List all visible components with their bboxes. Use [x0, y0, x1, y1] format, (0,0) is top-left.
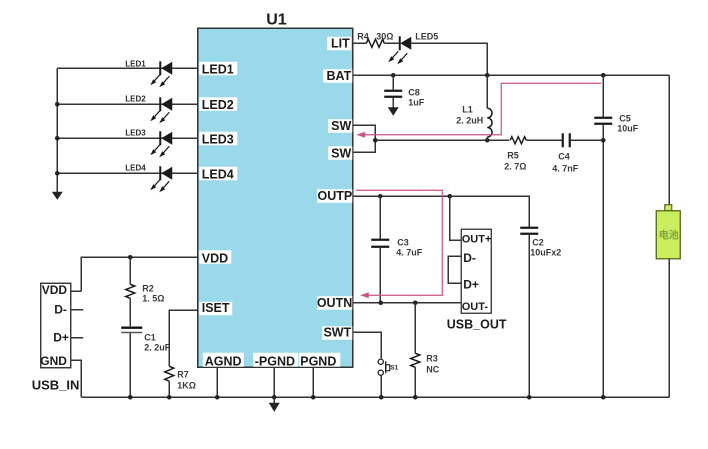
capacitor C4 [563, 133, 604, 147]
node junction bus-LED4 [55, 171, 60, 176]
wire LED5 to BAT line [411, 43, 487, 75]
node junction C5-C4 [601, 138, 606, 143]
resistor R5 [510, 137, 562, 144]
svg-text:R2: R2 [142, 283, 154, 293]
ground bus wire [81, 396, 669, 398]
wire AGND down [216, 367, 218, 397]
svg-text:USB_IN: USB_IN [32, 377, 80, 392]
node junction OUTP-USBOUT [447, 194, 452, 199]
svg-text:SW: SW [331, 119, 351, 133]
inductor L1 [487, 75, 492, 140]
svg-text:1uF: 1uF [408, 97, 425, 107]
wire BAT to battery [668, 75, 670, 205]
ground arrow below C8 [388, 107, 399, 116]
pin label SW1 [328, 119, 352, 133]
svg-text:D+: D+ [53, 330, 69, 344]
svg-text:2. 7Ω: 2. 7Ω [504, 161, 526, 171]
wire LED4 to bus [57, 172, 197, 174]
pin label PGND second [299, 353, 340, 369]
node junction OUTN-C3 [378, 300, 383, 305]
switch S1 [378, 359, 390, 397]
capacitor C2 [520, 228, 538, 398]
C4 value label [552, 151, 579, 173]
LED2 diode symbol [150, 97, 172, 123]
resistor R7 [165, 366, 174, 397]
node junction bus-C1 [128, 395, 133, 400]
svg-text:2. 2uH: 2. 2uH [456, 115, 483, 125]
svg-text:1. 5Ω: 1. 5Ω [142, 293, 164, 303]
C2 value label [530, 237, 561, 257]
svg-text:LED3: LED3 [125, 128, 146, 137]
wire PGND1 down [273, 367, 275, 397]
battery cell [656, 205, 680, 259]
svg-text:-PGND: -PGND [255, 354, 295, 368]
resistor R3 [411, 303, 420, 398]
wire SW loop [353, 125, 375, 152]
wire LED cathode bus vertical [56, 68, 58, 192]
svg-text:ISET: ISET [202, 301, 230, 315]
svg-text:S1: S1 [390, 364, 398, 371]
L1 value label [456, 104, 483, 125]
node junction bus-C2 [527, 395, 532, 400]
node junction bus-C5 [601, 395, 606, 400]
wire USB_OUT D- D+ short [448, 256, 461, 283]
pin label LED3 [199, 132, 237, 147]
pin label LIT [327, 36, 351, 50]
node junction L1 bottom [485, 138, 490, 143]
capacitor C5 [594, 75, 612, 397]
svg-text:SW: SW [331, 146, 351, 160]
C5 value label [617, 113, 639, 133]
svg-text:C4: C4 [558, 151, 570, 161]
wire BAT rail [353, 74, 669, 76]
node junction VDD-R2 [128, 255, 133, 260]
svg-text:LED4: LED4 [125, 163, 146, 172]
svg-text:LED3: LED3 [202, 132, 234, 146]
svg-text:L1: L1 [462, 104, 473, 114]
node junction bus-S1 [379, 395, 384, 400]
node junction bus-PGND2 [311, 395, 316, 400]
svg-text:LED4: LED4 [202, 167, 234, 181]
wire battery to ground bus [668, 259, 670, 398]
pin label VDD [199, 250, 231, 265]
node junction bus-AGND [215, 395, 220, 400]
svg-text:BAT: BAT [326, 69, 351, 83]
wire USB_IN VDD stub [71, 290, 81, 292]
ground arrow below PGND [269, 397, 280, 412]
R3 value label [426, 353, 439, 374]
svg-text:4. 7uF: 4. 7uF [396, 247, 423, 257]
wire ISET to R7 [169, 310, 197, 366]
capacitor C3 [371, 196, 389, 303]
svg-text:D+: D+ [463, 277, 479, 291]
svg-text:C1: C1 [144, 332, 156, 342]
pin label SWT [322, 325, 352, 340]
svg-text:10uF: 10uF [617, 123, 639, 133]
svg-text:VDD: VDD [202, 251, 228, 265]
svg-text:10uFx2: 10uFx2 [530, 247, 561, 257]
wire VDD to USB_IN [81, 257, 197, 291]
svg-text:LED1: LED1 [125, 59, 146, 68]
wire OUTP rail [353, 196, 529, 227]
pin label LED4 [199, 167, 237, 182]
connector USB_OUT box [461, 229, 491, 313]
svg-text:OUT-: OUT- [462, 301, 489, 313]
svg-text:OUTP: OUTP [318, 189, 353, 203]
C3 value label [396, 237, 423, 257]
C1 value label [144, 332, 171, 352]
wire LIT pin [353, 42, 366, 44]
wire SWT to S1 [353, 332, 381, 358]
resistor R4 [366, 39, 399, 47]
connector USB_IN box [41, 283, 71, 368]
svg-text:4. 7nF: 4. 7nF [552, 163, 579, 173]
svg-text:C8: C8 [408, 87, 420, 97]
wire LED1 to bus [57, 67, 197, 69]
svg-text:AGND: AGND [205, 354, 242, 368]
node junction BAT-C8 [391, 73, 396, 78]
pin label OUTP [317, 189, 352, 203]
svg-text:OUT+: OUT+ [462, 233, 492, 245]
pink feedback wire SW [356, 83, 601, 138]
LED5 diode symbol [388, 36, 411, 64]
svg-text:LIT: LIT [331, 36, 350, 50]
svg-text:LED5: LED5 [415, 31, 438, 41]
node junction bus-R7 [167, 395, 172, 400]
R5 value label [504, 150, 526, 171]
svg-text:LED1: LED1 [202, 62, 234, 76]
svg-text:PGND: PGND [300, 354, 336, 368]
svg-text:USB_OUT: USB_OUT [447, 317, 507, 331]
LED3 diode symbol [150, 131, 172, 157]
wire LED2 to bus [57, 103, 197, 105]
svg-text:U1: U1 [266, 11, 287, 28]
svg-text:30Ω: 30Ω [376, 31, 393, 41]
svg-text:R5: R5 [507, 150, 519, 160]
capacitor C1 [121, 328, 142, 398]
svg-text:NC: NC [426, 364, 439, 374]
wire LED3 to bus [57, 137, 197, 139]
node junction BAT-C5 [601, 73, 606, 78]
svg-text:GND: GND [40, 354, 67, 368]
C8 value label [408, 87, 425, 107]
node junction OUTP-C3 [378, 194, 383, 199]
svg-text:电池: 电池 [659, 228, 679, 241]
wire PGND2 down [312, 367, 314, 397]
wire OUT+ branch [450, 196, 462, 240]
pin label PGND first [253, 353, 298, 369]
LED4 diode symbol [150, 166, 172, 192]
svg-text:LED2: LED2 [202, 98, 234, 112]
svg-text:C5: C5 [619, 113, 631, 123]
wire SW to L1 and R5 [375, 139, 509, 141]
wire USB_IN D+ stub [71, 337, 83, 339]
svg-text:R3: R3 [426, 353, 438, 363]
svg-text:C2: C2 [532, 237, 544, 247]
LED1 diode symbol [150, 61, 172, 87]
R7 value label [177, 369, 196, 390]
pin label OUTN [317, 296, 352, 310]
node junction bus-LED3 [55, 136, 60, 141]
capacitor C8 [384, 75, 402, 108]
svg-text:D-: D- [463, 251, 476, 265]
node junction SW loop [373, 138, 378, 143]
pin label AGND [203, 353, 244, 369]
pink feedback wire OUT [356, 190, 442, 298]
svg-text:VDD: VDD [42, 283, 68, 297]
ground arrow below LED bus [52, 192, 63, 200]
pin label SW2 [328, 146, 352, 160]
pin label BAT [323, 69, 352, 83]
pin label LED2 [199, 97, 237, 112]
node junction OUTN-R3 [413, 300, 418, 305]
resistor R2 [126, 257, 135, 326]
svg-text:C3: C3 [397, 237, 409, 247]
svg-text:D-: D- [54, 302, 67, 316]
svg-text:OUTN: OUTN [317, 296, 352, 310]
wire USB_IN D- stub [71, 309, 83, 311]
pin label LED1 [199, 62, 237, 77]
pin label ISET [199, 301, 232, 316]
node junction bus-LED2 [55, 102, 60, 107]
node junction bus-PGND1 [272, 395, 277, 400]
svg-text:2. 2uF: 2. 2uF [144, 342, 171, 352]
node junction BAT-LED5 [485, 73, 490, 78]
svg-text:1KΩ: 1KΩ [177, 380, 196, 390]
svg-text:R4: R4 [357, 31, 369, 41]
wire OUTN rail [353, 302, 461, 304]
node junction bus-R3 [413, 395, 418, 400]
IC U1 body [198, 28, 353, 367]
svg-text:R7: R7 [177, 369, 189, 379]
svg-text:SWT: SWT [323, 325, 351, 339]
svg-text:LED2: LED2 [125, 94, 146, 103]
R2 value label [142, 283, 164, 303]
wire USB_IN GND to ground bus [71, 360, 81, 397]
